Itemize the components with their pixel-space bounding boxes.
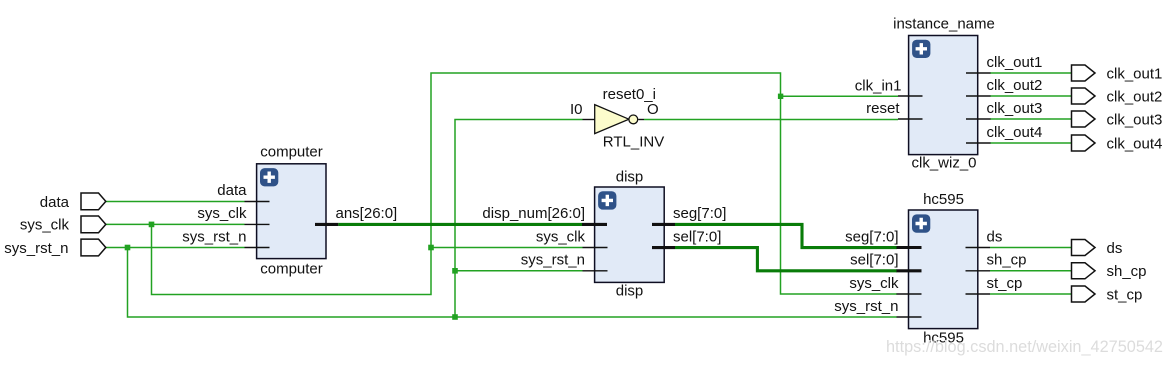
svg-text:sys_clk: sys_clk [20,217,70,234]
junction on sys_rst_n at bottom run [452,314,458,320]
wire net sys_rst_n: port to computer.sys_rst_n [106,247,245,249]
output port ds [1072,240,1123,258]
pin clk_wiz_0.clk_in1 [855,77,923,96]
pin computer.data [217,182,269,201]
svg-text:sh_cp: sh_cp [1107,263,1147,280]
pin hc595.sh_cp [966,252,1027,271]
wire net sys_clk: port to computer.sys_clk [106,223,245,225]
wire net sh_cp [990,270,1072,272]
svg-text:clk_out3: clk_out3 [1107,112,1163,129]
bus sel[7:0]: disp to hc595 [675,248,897,271]
svg-text:reset0_i: reset0_i [603,86,656,103]
expand icon disp [598,191,616,209]
output port clk_out1 [1072,65,1163,83]
svg-text:disp_num[26:0]: disp_num[26:0] [482,205,585,222]
svg-text:seg[7:0]: seg[7:0] [673,205,726,222]
svg-text:disp: disp [616,169,644,186]
pin computer.ans[26:0] (bus) [315,205,397,224]
svg-text:sys_rst_n: sys_rst_n [4,240,68,257]
wire net sys_rst_n: vertical branch up to inverter input I0 [455,120,583,318]
expand icon computer [260,168,278,186]
svg-text:hc595: hc595 [923,191,964,208]
svg-text:data: data [40,194,70,211]
svg-text:clk_in1: clk_in1 [855,77,902,94]
module computer U_computer [257,144,326,278]
pin hc595.sys_clk [849,275,921,294]
svg-text:ds: ds [1107,240,1123,257]
input port data [40,193,106,211]
svg-text:st_cp: st_cp [1107,287,1143,304]
pin disp.disp_num[26:0] (bus) [482,205,607,224]
output port clk_out4 [1072,135,1163,153]
pin clk_wiz_0.clk_out1 [966,54,1042,73]
svg-text:sys_rst_n: sys_rst_n [182,228,246,245]
bus ans[26:0]: computer to disp.disp_num [338,223,582,226]
pin hc595.sel[7:0] (bus) [850,252,921,271]
svg-text:sel[7:0]: sel[7:0] [850,252,898,269]
wire net clk_out1 [990,72,1072,74]
svg-text:instance_name: instance_name [893,16,995,33]
svg-text:clk_out4: clk_out4 [1107,136,1163,153]
wire net sys_rst_n: branch down and across bottom to hc595.sys_rst_n [128,248,897,318]
wire net clk_out2 [990,95,1072,97]
output port clk_out2 [1072,88,1163,106]
junction on sys_clk at clk_in1 branch [778,94,783,99]
pin clk_wiz_0.clk_out3 [966,100,1042,119]
pin disp.seg[7:0] (bus) [652,205,726,224]
pin hc595.ds [966,228,1003,247]
svg-text:O: O [647,101,659,118]
junction on sys_rst_n at disp branch [452,268,458,274]
svg-text:st_cp: st_cp [987,275,1023,292]
wire net clk_out3 [990,118,1072,120]
svg-text:RTL_INV: RTL_INV [603,134,664,151]
svg-text:computer: computer [260,261,323,278]
pin hc595.st_cp [966,275,1023,294]
svg-text:sys_rst_n: sys_rst_n [834,298,898,315]
wire net sys_rst_n: branch to disp sys_rst_n [455,270,583,272]
output port sh_cp [1072,263,1147,280]
pin hc595.seg[7:0] (bus) [845,228,921,247]
wire net sys_clk: branch to disp sys_clk [431,247,583,249]
module clk_wiz_0 instance_name [893,16,995,172]
svg-text:data: data [217,182,247,199]
svg-text:clk_out2: clk_out2 [1107,89,1163,106]
output port clk_out3 [1072,111,1163,129]
wire net reset0: inverter output to clk_wiz reset [644,119,898,121]
wire net ds [990,247,1072,249]
wire net sys_clk: branch down from junction, across bottom, up left of disp, top run to x783 [152,73,898,295]
pin disp.sys_clk [536,228,608,247]
inverter reset0_i RTL_INV [570,86,664,151]
expand icon hc595 [912,214,930,232]
pin clk_wiz_0.reset [866,100,922,119]
wire net st_cp [990,293,1072,295]
svg-text:clk_wiz_0: clk_wiz_0 [911,155,976,172]
expand icon clk_wiz_0 [912,40,930,58]
svg-text:sel[7:0]: sel[7:0] [673,228,721,245]
input port sys_rst_n [4,239,106,257]
svg-text:clk_out4: clk_out4 [987,124,1043,141]
pin computer.sys_rst_n [182,228,269,247]
svg-text:ans[26:0]: ans[26:0] [336,205,398,222]
output port st_cp [1072,286,1143,304]
junction on sys_clk at port branch [149,222,155,228]
pin disp.sys_rst_n [521,252,608,271]
svg-text:clk_out3: clk_out3 [987,100,1043,117]
svg-text:reset: reset [866,100,900,117]
svg-text:sh_cp: sh_cp [987,252,1027,269]
module hc595 U_hc595 [909,191,978,347]
pin clk_wiz_0.clk_out2 [966,77,1042,96]
svg-text:clk_out1: clk_out1 [987,54,1043,71]
wire net sys_clk: branch to clk_wiz clk_in1 [781,95,899,97]
module disp U_disp [595,169,665,300]
pin disp.sel[7:0] (bus) [652,228,721,247]
svg-text:ds: ds [987,228,1003,245]
svg-text:clk_out2: clk_out2 [987,77,1043,94]
input port sys_clk [20,216,106,234]
bus seg[7:0]: disp to hc595 [675,224,897,247]
wire net clk_out4 [990,142,1072,144]
svg-text:seg[7:0]: seg[7:0] [845,228,898,245]
svg-text:sys_clk: sys_clk [197,205,247,222]
svg-text:I0: I0 [570,101,583,118]
wire net data: port to computer.data [106,201,245,203]
svg-text:sys_rst_n: sys_rst_n [521,252,585,269]
junction on sys_rst_n at port branch [125,245,131,251]
svg-text:disp: disp [616,283,644,300]
svg-text:sys_clk: sys_clk [536,228,586,245]
junction on sys_clk at disp branch [428,245,434,251]
svg-text:https://blog.csdn.net/weixin_4: https://blog.csdn.net/weixin_42750542 [886,338,1163,356]
svg-text:sys_clk: sys_clk [849,275,899,292]
pin clk_wiz_0.clk_out4 [966,124,1042,143]
svg-text:clk_out1: clk_out1 [1107,66,1163,83]
svg-text:computer: computer [260,144,323,161]
pin hc595.sys_rst_n [834,298,921,317]
pin computer.sys_clk [197,205,269,224]
